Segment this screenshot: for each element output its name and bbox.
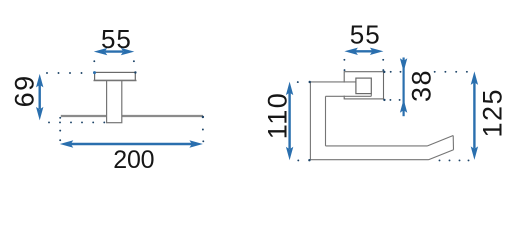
wall plate bottom lip: [94, 80, 137, 82]
dim 38: arrow line with outside heads: [400, 58, 407, 117]
dotted extension: arm top-left corner to 110 arrow: [297, 81, 311, 83]
tip lower slant: [429, 150, 454, 160]
svg-text:38: 38: [407, 69, 437, 102]
extension dots below right 55 arrow: [343, 59, 384, 71]
outer left edge: [309, 82, 311, 160]
dim arrow 55 (left view): [94, 48, 135, 55]
dotted extension line: stem bottom to 69 arrow: [48, 121, 105, 123]
extension dots below 55 arrow: [93, 60, 134, 62]
dotted extension line: plate top to 69 arrow: [46, 72, 82, 74]
svg-text:69: 69: [10, 74, 40, 107]
svg-text:200: 200: [113, 146, 154, 174]
svg-text:55: 55: [350, 20, 381, 50]
corner marker plate top-left: [93, 71, 96, 74]
tip upper slant: [428, 136, 454, 146]
svg-text:125: 125: [478, 88, 508, 138]
dim arrow 200: [60, 140, 203, 147]
inner left edge: [325, 96, 327, 146]
arm band top edge: [310, 81, 356, 83]
dotted extension line: bar left end down to 200 arrow: [59, 117, 61, 141]
wall plate (front view): [95, 72, 136, 80]
stem (front view): [107, 80, 122, 123]
stem cross-section square: [356, 78, 371, 94]
dotted extension line: bar right end down to 200 arrow: [202, 116, 205, 142]
holder bar (front view, 200mm): [61, 115, 203, 117]
tip right edge: [452, 136, 454, 150]
inner bottom edge: [326, 145, 428, 147]
dotted extension: bottom-left corner to 110 arrow: [297, 159, 310, 161]
svg-text:110: 110: [263, 92, 293, 140]
dotted extension: bar tip bottom to 125 arrow: [439, 159, 470, 161]
dim arrow 110: [286, 82, 293, 161]
dim arrow 55 (right view): [344, 48, 383, 55]
corner marker plate top-right: [134, 71, 136, 73]
dotted extension: plate top-right toward 125/38: [383, 71, 468, 73]
arm band bottom edge: [326, 95, 372, 97]
dim arrow 125: [471, 71, 478, 159]
arm band right stub: [370, 94, 372, 97]
arm band eraser over plate edge: [311, 83, 371, 96]
wall plate (side view): [344, 72, 383, 99]
dim arrow 69: [36, 74, 43, 121]
dotted extension: plate bottom-right to 38 arrow: [383, 99, 400, 101]
outer bottom edge: [310, 159, 428, 161]
